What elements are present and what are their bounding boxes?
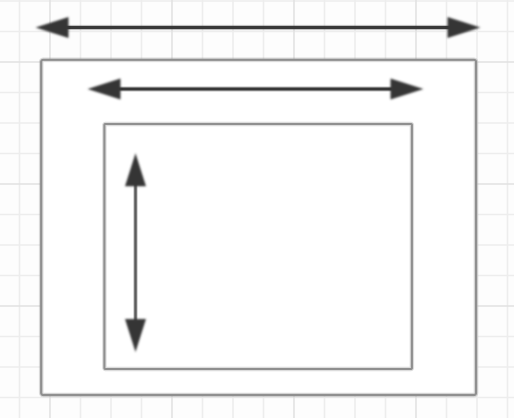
top arrow left head bbox=[36, 17, 69, 38]
vertical double arrow : shaft bbox=[134, 180, 137, 325]
arrowheads bbox=[36, 17, 481, 352]
outer rectangle bbox=[41, 60, 476, 395]
middle horizontal double arrow : shaft bbox=[114, 86, 396, 91]
vertical arrow bottom head bbox=[125, 319, 146, 352]
inner rectangle bbox=[104, 124, 412, 369]
vertical arrow top head bbox=[125, 153, 146, 186]
middle arrow right head bbox=[391, 79, 424, 100]
top arrow right head bbox=[448, 17, 481, 38]
middle arrow left head bbox=[88, 79, 121, 100]
top horizontal double arrow : shaft bbox=[64, 25, 452, 30]
